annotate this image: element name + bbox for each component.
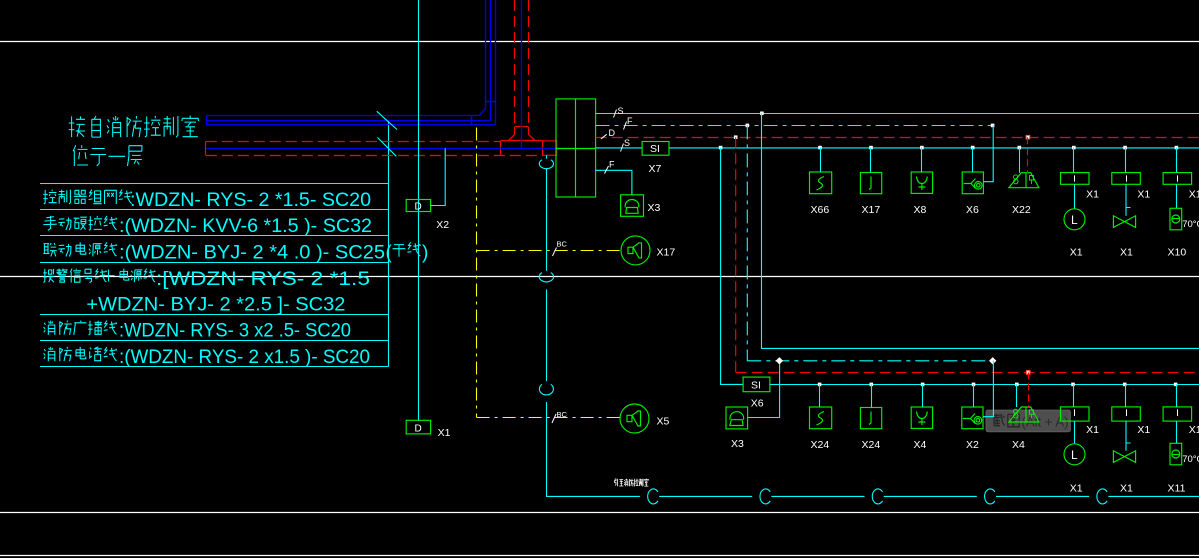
heading 接自消防控制室	[69, 116, 199, 138]
svg-text:X1: X1	[438, 427, 451, 439]
junction diamond F2	[989, 357, 996, 364]
riser D red dashed	[736, 137, 1199, 373]
device X8 symbol	[917, 177, 928, 191]
device X4 box	[911, 407, 932, 428]
device X66 symbol	[817, 177, 825, 191]
svg-text:X1: X1	[1120, 483, 1133, 495]
device X6 jack box	[962, 172, 983, 194]
svg-text:D: D	[415, 423, 422, 434]
break C #4	[985, 489, 995, 504]
wire blue riser 3	[495, 0, 497, 124]
junction S bottom x1016	[1015, 383, 1019, 387]
wire drop module top #2	[1125, 148, 1127, 173]
svg-text:BC: BC	[557, 240, 568, 249]
wire blue power riser	[521, 0, 523, 148]
svg-text:X17: X17	[862, 204, 881, 216]
wire riser x546 c	[546, 402, 548, 497]
svg-text:X1: X1	[1086, 189, 1099, 201]
riser F dash-dot	[747, 125, 992, 361]
svg-text:X4: X4	[1012, 439, 1025, 451]
wire phone drop	[748, 361, 780, 418]
junction S bottom x819	[818, 383, 822, 387]
wire drop X17	[870, 148, 872, 173]
tick D	[601, 134, 607, 139]
junction S upper riser	[760, 112, 764, 116]
tick S lower	[621, 144, 624, 152]
wire X2 to F line	[983, 361, 993, 417]
svg-text:X17: X17	[657, 247, 676, 259]
wire module3 to 70C	[1176, 184, 1178, 208]
junction F riser	[746, 124, 750, 128]
wire drop X4 sounder power	[1028, 372, 1030, 407]
svg-text:X1: X1	[1189, 424, 1199, 436]
telephone X3 upper box	[621, 195, 644, 217]
frame line lower	[0, 512, 1199, 514]
red tee end cap left	[500, 141, 502, 156]
tick BC upper	[553, 248, 557, 257]
wire drop X24a	[819, 384, 821, 407]
wire red dashed horizontal upper	[206, 141, 501, 143]
telephone X3 upper icon	[625, 199, 639, 213]
red tee flare	[508, 134, 535, 140]
junction S lower x1019	[1018, 146, 1022, 150]
svg-text:X24: X24	[811, 439, 830, 451]
svg-text:X22: X22	[1012, 204, 1031, 216]
svg-text:70°C: 70°C	[1182, 454, 1199, 465]
wire red dashed horizontal lower	[206, 155, 543, 157]
junction S bottom x1124	[1123, 383, 1127, 387]
module X1 bottom #3 tick	[1177, 409, 1179, 416]
svg-text:X7: X7	[649, 163, 662, 175]
svg-text:X2: X2	[966, 439, 979, 451]
riser S to SI lower	[721, 148, 744, 385]
red conduit box at controller	[543, 141, 557, 155]
wire yellow to X5	[477, 417, 620, 419]
break slash upper	[377, 111, 397, 129]
wire yellow riser	[476, 128, 478, 418]
wire SI lower to vertical	[770, 384, 780, 386]
label 引至消防控制室	[615, 479, 649, 487]
controller divider	[575, 99, 577, 197]
svg-text:X6: X6	[751, 397, 764, 409]
wire D bus red dashed	[596, 137, 1199, 139]
device X22 sounder	[1009, 173, 1039, 188]
tick F lower	[605, 166, 609, 174]
telephone X3 lower icon	[730, 412, 744, 426]
wire module1b to lamp	[1074, 421, 1076, 444]
frame line bottom	[0, 555, 1199, 557]
blue bundle tie at x471	[471, 116, 473, 125]
junction S lower x921	[920, 146, 924, 150]
svg-text:X3: X3	[648, 202, 661, 214]
red bundle left cap	[205, 141, 207, 155]
red tee top bar	[501, 140, 543, 142]
wire drop X22 power red	[1027, 137, 1029, 173]
module X1 bottom #2 box	[1112, 407, 1141, 421]
device X4 sounder	[1009, 407, 1039, 422]
svg-text:F: F	[609, 160, 615, 170]
row1 label 控制器组网线	[43, 190, 132, 204]
svg-text:X1: X1	[1070, 247, 1083, 259]
wire drop X66	[820, 148, 822, 172]
svg-text:X1: X1	[1137, 189, 1150, 201]
blue bundle left cap	[206, 115, 208, 125]
wire F bus dash-dot	[596, 125, 993, 127]
wire stub below tee	[546, 155, 548, 158]
svg-text:S: S	[624, 138, 630, 148]
wire drop X4	[922, 384, 924, 407]
wire blue horizontal 1 with bevel	[206, 108, 486, 116]
svg-text:L: L	[1071, 448, 1078, 462]
wire module2 to valve	[1126, 184, 1131, 216]
junction S lower x820	[818, 146, 822, 150]
speaker X5 circle	[620, 404, 649, 433]
device X24b symbol	[869, 412, 871, 425]
svg-text:BC: BC	[557, 410, 568, 419]
svg-text:X66: X66	[811, 204, 830, 216]
row6 label 消防广播线	[44, 321, 117, 335]
row4 label 报警信号线	[43, 269, 106, 283]
device X6 jack symbol	[964, 179, 976, 189]
svg-text::[WDZN- RYS- 2 *1.5: :[WDZN- RYS- 2 *1.5	[156, 269, 370, 290]
svg-text:X24: X24	[862, 439, 881, 451]
valve bowtie	[1113, 216, 1135, 228]
frame line top	[0, 41, 1199, 43]
device X24b box	[860, 408, 881, 429]
module X1 bottom #1 box	[1061, 407, 1090, 421]
svg-text:D: D	[415, 202, 422, 213]
junction S lower x1176	[1175, 146, 1179, 150]
row7 label 消防电话线	[44, 347, 117, 361]
svg-text:X4: X4	[914, 439, 927, 451]
speaker X17 circle	[621, 236, 650, 265]
device X24a box	[810, 407, 832, 429]
device X24a symbol	[817, 412, 825, 426]
heading 位于一层	[73, 145, 142, 166]
svg-text:X1: X1	[1070, 483, 1083, 495]
70C device box	[1170, 208, 1182, 230]
device X2 jack box	[962, 407, 983, 429]
wire red riser 1 dashed	[514, 0, 516, 127]
wire yellow branch to X17	[477, 250, 621, 252]
svg-text:X8: X8	[914, 204, 927, 216]
tick S upper	[614, 110, 617, 118]
junction S lower x972	[971, 146, 975, 150]
junction S bottom x1073	[1071, 383, 1075, 387]
blue bundle tie bar top	[486, 101, 496, 103]
junction S bottom x922	[921, 383, 925, 387]
junction S bottom x1175	[1174, 383, 1178, 387]
wire blue horizontal 3	[206, 124, 495, 126]
wire riser x546 b	[546, 289, 548, 381]
table right border + bus reference line	[388, 121, 390, 367]
tick F upper	[624, 122, 627, 130]
svg-text:X1: X1	[1189, 189, 1199, 201]
wire drop module bottom #2	[1125, 384, 1127, 407]
controller internal line	[556, 148, 596, 150]
junction S lower riser	[719, 146, 723, 150]
svg-text:): )	[422, 243, 428, 264]
break C #5	[1097, 489, 1107, 504]
svg-text:L: L	[1071, 213, 1078, 227]
wire drop module bottom #1	[1073, 384, 1075, 407]
watermark text 截图	[993, 414, 1019, 427]
svg-text:(: (	[386, 243, 393, 264]
device X4 symbol	[917, 412, 928, 426]
break circle 3	[539, 384, 553, 395]
break circle 1	[539, 160, 553, 169]
svg-text:X1: X1	[1086, 424, 1099, 436]
module X1 top #3 tick	[1177, 175, 1179, 181]
svg-text::(WDZN- KVV-6 *1.5 )- SC32: :(WDZN- KVV-6 *1.5 )- SC32	[119, 216, 372, 237]
module X1 top #1 tick	[1074, 175, 1076, 181]
wire blue horizontal 2	[206, 120, 491, 122]
watermark box	[986, 410, 1070, 432]
svg-text:SI: SI	[650, 143, 660, 155]
svg-text:X3: X3	[731, 438, 744, 450]
wire drop X24b	[871, 384, 873, 407]
wire X6 to F line	[983, 125, 993, 181]
wire module3b to 70C	[1176, 421, 1178, 443]
break C #3	[872, 489, 882, 504]
device X2 jack symbol	[963, 414, 975, 424]
controller cabinet	[556, 99, 596, 197]
red tee end cap right	[542, 141, 544, 156]
wire drop X6	[972, 148, 974, 172]
svg-text:X11: X11	[1168, 483, 1186, 495]
row4 plus sign	[103, 270, 115, 282]
70C device box bottom	[1170, 443, 1182, 465]
wire S bus lower	[596, 147, 1199, 149]
svg-text:F: F	[627, 116, 633, 126]
svg-text:X2: X2	[436, 219, 449, 231]
junction F end	[991, 124, 995, 128]
device X8 box	[911, 172, 932, 193]
module X1 bottom #3 box	[1163, 407, 1192, 421]
wire blue riser 1	[485, 0, 487, 108]
junction diamond F1	[776, 357, 783, 364]
row4 label 电源线	[120, 269, 155, 283]
wire drop X2	[973, 384, 975, 407]
svg-text:X10: X10	[1168, 247, 1187, 259]
junction S lower x1073	[1072, 146, 1076, 150]
svg-text::WDZN- RYS- 2 *1.5- SC20: :WDZN- RYS- 2 *1.5- SC20	[130, 190, 371, 211]
wire red riser 2 dashed	[528, 0, 530, 127]
svg-text:SI: SI	[751, 379, 761, 391]
wire S bus bottom	[780, 384, 1199, 386]
svg-text:D: D	[609, 128, 616, 138]
wire drop X4 sounder signal	[1016, 384, 1018, 407]
svg-text::WDZN- RYS- 3 x2 .5- SC20: :WDZN- RYS- 3 x2 .5- SC20	[119, 321, 351, 342]
junction D riser	[734, 135, 738, 139]
module X1 bottom #1 tick	[1074, 409, 1076, 416]
svg-text:X6: X6	[966, 204, 979, 216]
lamp L circle bottom	[1064, 444, 1085, 465]
svg-text::(WDZN- RYS- 2 x1.5 )- SC20: :(WDZN- RYS- 2 x1.5 )- SC20	[119, 347, 370, 368]
module SI upper	[642, 142, 669, 156]
module D X2 box	[406, 200, 430, 212]
module X1 bottom #2 tick	[1126, 409, 1128, 416]
module X1 top #2 box	[1112, 173, 1141, 185]
frame line middle	[0, 276, 1199, 278]
junction S bottom x871	[870, 383, 874, 387]
module X1 top #1 box	[1061, 173, 1090, 185]
device X17 box	[860, 173, 881, 194]
device X66 box	[810, 172, 832, 194]
svg-text:X5: X5	[657, 416, 670, 428]
break C #1	[648, 489, 658, 504]
break slash lower	[378, 138, 397, 157]
module SI lower	[743, 377, 770, 392]
tick BC lower	[552, 414, 556, 423]
wire blue riser 2	[490, 0, 492, 121]
row3 label 联动电源线	[43, 242, 117, 256]
module X1 top #2 tick	[1126, 175, 1128, 181]
wire blue power horizontal	[206, 148, 556, 150]
red tee riser solid 2	[528, 127, 530, 134]
svg-text:X1: X1	[1120, 247, 1133, 259]
wire riser x418	[418, 0, 420, 420]
svg-text:70°C: 70°C	[1182, 219, 1199, 230]
telephone X3 lower box	[726, 407, 748, 429]
wire module1 to lamp	[1074, 184, 1076, 209]
junction S bottom x973	[972, 383, 976, 387]
wire drop module bottom #3	[1176, 384, 1178, 407]
wire riser x546 a	[546, 168, 548, 270]
wire drop module top #1	[1073, 148, 1075, 173]
svg-text::(WDZN- BYJ- 2 *4 .0 )- SC25: :(WDZN- BYJ- 2 *4 .0 )- SC25	[119, 243, 385, 264]
row3 干线	[393, 242, 421, 256]
wire S bus upper	[596, 113, 1199, 115]
svg-text:S: S	[618, 106, 624, 116]
wire drop module top #3	[1176, 148, 1178, 173]
break circle 2	[539, 273, 553, 282]
svg-text:X1: X1	[1137, 424, 1150, 436]
riser S solid	[762, 113, 1199, 349]
svg-text:+WDZN- BYJ- 2 *2.5 ]- SC32: +WDZN- BYJ- 2 *2.5 ]- SC32	[86, 294, 345, 315]
module D X1 box	[406, 420, 430, 434]
device X17 symbol	[869, 177, 871, 190]
red tee tie bar	[515, 126, 529, 128]
wire drop X22 signal	[1019, 148, 1021, 173]
wire module2b to valve	[1126, 421, 1131, 451]
wire drop X8	[921, 148, 923, 172]
junction S lower x871	[869, 146, 873, 150]
wire F phone line	[596, 170, 632, 195]
wire broadcast bottom line	[546, 495, 1199, 497]
valve bowtie bottom	[1113, 451, 1135, 463]
junction S lower x1125	[1123, 146, 1127, 150]
table border lines	[40, 183, 388, 185]
row2 label 手动硬拉线	[43, 216, 117, 230]
junction D sounder	[1026, 135, 1031, 140]
junction D lower sounder	[1026, 370, 1031, 375]
break C #2	[760, 489, 770, 504]
wire D X2 to blue line	[431, 148, 446, 205]
module X1 top #3 box	[1163, 173, 1192, 185]
red tee riser solid 1	[514, 127, 516, 134]
lamp L circle	[1064, 209, 1085, 230]
